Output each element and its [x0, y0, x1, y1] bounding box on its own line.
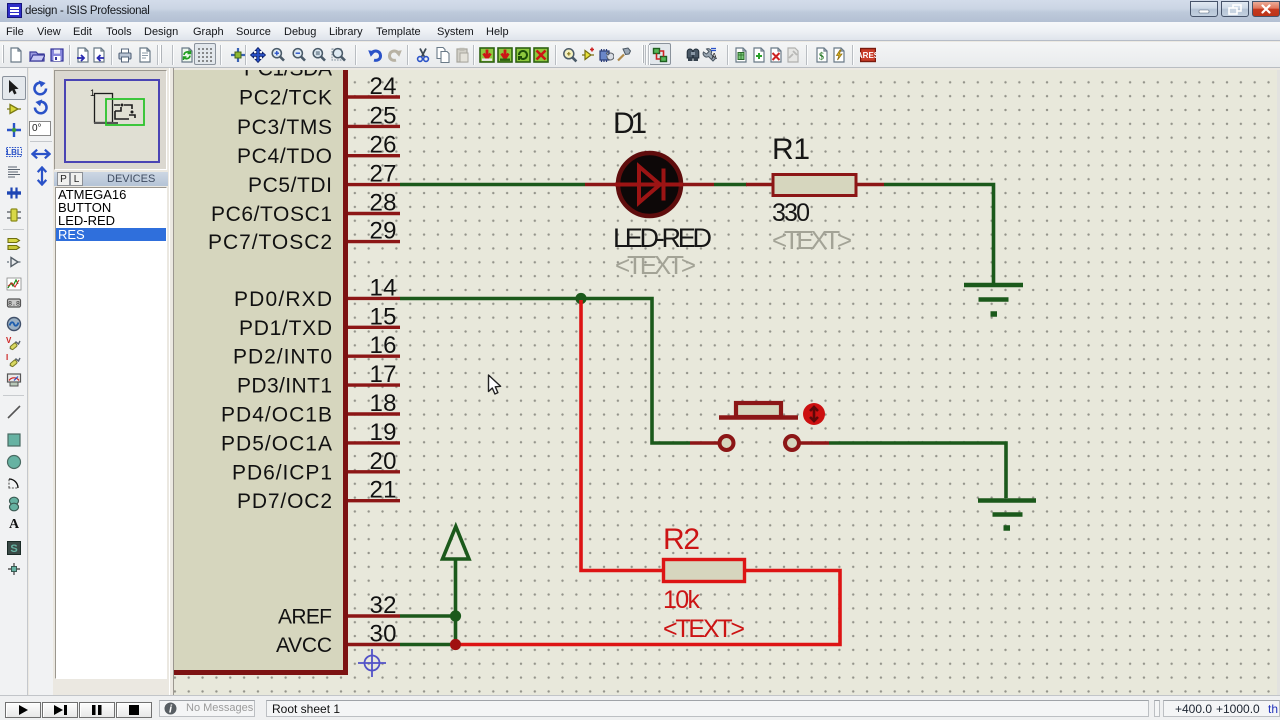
svg-text:PC3/TMS: PC3/TMS — [237, 116, 332, 139]
svg-text:24: 24 — [370, 73, 397, 100]
svg-text:PD3/INT1: PD3/INT1 — [237, 375, 332, 398]
svg-text:R2: R2 — [663, 523, 700, 556]
svg-text:10k: 10k — [663, 586, 701, 614]
svg-text:PC6/TOSC1: PC6/TOSC1 — [211, 203, 332, 226]
svg-text:15: 15 — [370, 303, 397, 330]
svg-text:PD6/ICP1: PD6/ICP1 — [232, 461, 332, 484]
svg-text:A: A — [712, 52, 718, 61]
svg-text:PD0/RXD: PD0/RXD — [234, 288, 332, 311]
svg-text:V: V — [6, 336, 12, 345]
svg-text:1: 1 — [90, 88, 95, 98]
svg-text:PD4/OC1B: PD4/OC1B — [221, 404, 332, 427]
svg-text:LED-RED: LED-RED — [613, 223, 712, 253]
svg-text:<TEXT>: <TEXT> — [615, 250, 696, 280]
svg-text:18: 18 — [370, 390, 397, 417]
svg-text:ARES: ARES — [860, 51, 876, 60]
svg-text:AVCC: AVCC — [276, 634, 332, 657]
svg-text:17: 17 — [370, 361, 397, 388]
svg-text:14: 14 — [370, 274, 397, 301]
svg-text:AREF: AREF — [278, 606, 332, 629]
svg-text:PC1/SDA: PC1/SDA — [244, 70, 332, 81]
svg-text:25: 25 — [370, 102, 397, 129]
svg-text:PD5/OC1A: PD5/OC1A — [221, 432, 332, 455]
svg-text:330: 330 — [772, 199, 810, 227]
svg-text:PC5/TDI: PC5/TDI — [248, 174, 332, 197]
svg-text:29: 29 — [370, 218, 397, 245]
svg-text:PC7/TOSC2: PC7/TOSC2 — [208, 231, 332, 254]
svg-text:20: 20 — [370, 448, 397, 475]
svg-text:R1: R1 — [772, 133, 810, 166]
svg-text:PD1/TXD: PD1/TXD — [239, 317, 332, 340]
svg-text:32: 32 — [370, 592, 397, 619]
svg-text:$: $ — [819, 52, 824, 63]
svg-text:<TEXT>: <TEXT> — [663, 615, 745, 643]
svg-text:16: 16 — [370, 332, 397, 359]
svg-text:PD2/INT0: PD2/INT0 — [233, 346, 332, 369]
svg-text:A: A — [9, 517, 20, 531]
svg-text:PC2/TCK: PC2/TCK — [239, 87, 332, 110]
svg-text:21: 21 — [370, 477, 397, 504]
svg-text:PD7/OC2: PD7/OC2 — [237, 490, 332, 513]
svg-text:<TEXT>: <TEXT> — [772, 225, 852, 255]
svg-text:PC4/TDO: PC4/TDO — [237, 145, 332, 168]
svg-text:8.8: 8.8 — [8, 301, 20, 308]
svg-text:30: 30 — [370, 621, 397, 648]
svg-text:S: S — [10, 543, 17, 555]
svg-text:28: 28 — [370, 190, 397, 217]
svg-text:27: 27 — [370, 161, 397, 188]
svg-text:LBL: LBL — [6, 148, 22, 157]
svg-text:19: 19 — [370, 419, 397, 446]
svg-text:I: I — [6, 353, 8, 362]
svg-text:D1: D1 — [613, 107, 647, 140]
svg-text:26: 26 — [370, 132, 397, 159]
